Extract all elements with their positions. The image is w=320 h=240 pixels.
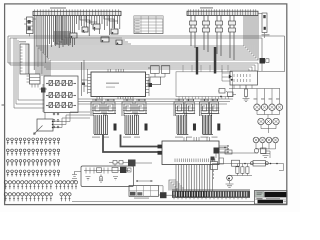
thick trace net-A [103,135,158,153]
test point row L2 [7,149,60,156]
capacitor C20 [232,160,240,166]
IC U4 [187,7,258,15]
ground G3 [86,177,91,181]
wire TP feed net [229,85,280,104]
driver cluster D [200,99,221,138]
pad P1 [158,145,163,149]
battery B1 [72,172,81,181]
transistor Q10 [159,186,177,198]
test pins row mini [53,113,59,128]
IC U1 [33,7,121,15]
crystal Y2 [100,175,103,184]
fuse F1 [244,161,278,167]
frame center tick [2,104,5,106]
relay K1 [148,66,170,87]
ground G4 [113,177,118,181]
transistor cluster Q-top-left [70,24,122,45]
title block [255,191,288,205]
jumper row JP1 [228,164,252,176]
wire rail net-B [10,38,262,71]
test point row L5 [4,181,77,190]
ground AGND [261,154,270,158]
module M1 [44,76,78,113]
driver cluster B [122,99,148,138]
thick trace bars [196,47,217,75]
varistor U5 [258,13,270,38]
resistor R8 [243,85,250,102]
connector P3 [214,147,229,158]
node junction blob [260,58,270,64]
reference table [134,16,163,34]
transistor clusters under U4 [190,16,236,61]
sheet border frame [5,4,287,205]
wire L-bends feeding component cluster [56,16,131,44]
driver cluster C [174,99,196,138]
ground GND2 [226,184,234,188]
wire left bus [14,38,44,108]
thick trace net-B [121,135,159,147]
trimmer R0 [34,113,54,135]
wire staircase bus [36,16,258,77]
test point row TP5-TP7 [258,118,279,133]
regulator VR1 [211,157,218,180]
wire rails under U3 [79,99,234,104]
wire harness to comb [169,165,212,191]
IC U6 [27,74,41,88]
test point row L4 [7,170,60,177]
wire dense bundle [54,31,71,45]
test point row TP8-TP11 [253,137,278,153]
label TP row [254,98,281,99]
pad P2 [158,151,163,155]
wire rail net-A [8,36,285,72]
power supply box [81,166,134,187]
regulator circuit above box [109,160,152,167]
wire net-D [212,164,284,171]
RC filter row [84,167,131,174]
wire bus under U1 [34,16,120,74]
driver cluster A [91,99,117,138]
test point row L1 [7,138,60,145]
test point row L3 [7,160,60,167]
wire bottom rail [72,200,254,202]
test point row L6 [4,193,71,202]
connector J1 [19,41,29,74]
test point row TP1-TP4 [254,104,283,118]
IC U7 [176,65,233,99]
transistor pair Q8 [218,89,236,98]
connector comb [172,190,250,200]
connector U9 [162,137,229,165]
wire mid band net [8,63,258,71]
wire trimmer nets [53,112,90,128]
jumper table T2 [129,180,159,198]
IC U3 [88,69,150,99]
IC U2 [24,17,36,37]
switch S1 [254,148,270,158]
resistor network U8 [222,69,258,85]
wire net-C [220,150,258,154]
transistor Q9 [227,175,233,183]
crystal Y1 [40,84,48,112]
wire feed left of U3 [82,60,88,96]
